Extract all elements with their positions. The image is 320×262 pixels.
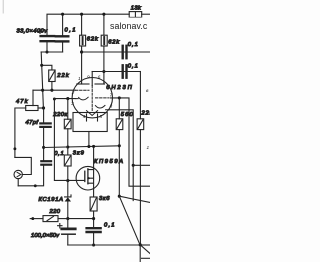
wire: 62k1 top to rail xyxy=(81,14,83,35)
tube cathode 1 xyxy=(76,97,88,100)
wire: 220k top lead xyxy=(67,99,69,120)
node: ground wire right end xyxy=(118,144,121,147)
svg-text:2: 2 xyxy=(71,90,75,95)
resistor R 47k (horizontal) xyxy=(26,106,38,111)
capacitor C1 33.0uF 400V (electrolytic, plus sign) xyxy=(41,36,55,41)
scan edge artifact top-left xyxy=(2,0,4,13)
transistor channel bar xyxy=(87,169,89,184)
svg-text:220к: 220к xyxy=(52,112,67,118)
node: anode wire / 0,1-wire junction xyxy=(80,50,83,53)
tube grid 1 dashed xyxy=(76,89,90,91)
svg-text:КП959А: КП959А xyxy=(94,159,123,165)
node: zener bottom junction xyxy=(66,217,69,220)
wire: cathode1 to gate column xyxy=(54,98,75,100)
wire: bottom short line xyxy=(142,257,151,259)
node: R560 top xyxy=(118,96,121,99)
wire: 100.0 to bus xyxy=(67,234,69,245)
svg-text:22к: 22к xyxy=(141,111,151,117)
resistor R 220k xyxy=(64,119,71,129)
node: rail/C2 junction xyxy=(61,13,64,16)
wire: output stub right (pin8) xyxy=(133,164,150,166)
watermark salonav.c xyxy=(106,18,150,33)
tube pin9 lead xyxy=(91,72,93,86)
svg-text:6: 6 xyxy=(98,75,101,80)
resistor R 62k #1 xyxy=(80,35,86,46)
resistor R 3k6 xyxy=(90,197,97,211)
node: riser crossing grid wire xyxy=(41,89,44,92)
wire: triangle hypotenuse xyxy=(119,196,140,245)
svg-text:100,0×50v: 100,0×50v xyxy=(31,233,60,239)
resistor R 220 (horizontal) xyxy=(43,216,58,222)
svg-text:1: 1 xyxy=(78,76,81,81)
resistor R 22k output xyxy=(137,119,144,130)
wire: R560 leads xyxy=(118,98,120,119)
svg-text:47k: 47k xyxy=(16,99,29,105)
svg-text:47pf: 47pf xyxy=(26,120,40,126)
svg-text:0,1: 0,1 xyxy=(128,42,138,48)
svg-text:62k: 62k xyxy=(108,40,120,46)
node: input column dot xyxy=(13,147,16,150)
transistor source lead xyxy=(88,170,94,197)
resistor R 560 xyxy=(116,119,123,130)
wire: bus to right edge xyxy=(140,244,150,246)
node: stub blob xyxy=(34,184,37,187)
svg-text:7: 7 xyxy=(110,93,113,98)
wire: 62k2 bottom to anode2 xyxy=(103,46,105,84)
wire: R22 bottom long vertical to star xyxy=(139,130,141,245)
resistor R 22k xyxy=(49,70,55,82)
node: triangle apex xyxy=(118,195,121,198)
node: 22k tap xyxy=(40,64,43,67)
node: C1 bottom junction xyxy=(45,50,48,53)
node: 3k9 on gate wire xyxy=(66,179,69,182)
node: heater ground xyxy=(87,145,90,148)
svg-text:0,1: 0,1 xyxy=(54,151,64,157)
wire: 220 right lead xyxy=(58,218,68,220)
tube divider dashed xyxy=(91,86,93,111)
wire: rail right of 13k to edge xyxy=(142,13,150,15)
pin labels xyxy=(71,74,150,150)
svg-text:8: 8 xyxy=(110,104,113,109)
node: 220k tap on cathode wire xyxy=(66,97,69,100)
svg-text:3к6: 3к6 xyxy=(99,196,110,202)
svg-text:13k: 13k xyxy=(131,6,142,12)
svg-text:560: 560 xyxy=(121,112,134,118)
wire: cap top to node xyxy=(67,219,69,229)
wire: ground bus bottom xyxy=(68,244,140,246)
resistor 13k (horizontal, top right) xyxy=(129,12,142,18)
node: drain on ground wire xyxy=(92,145,95,148)
svg-text:4: 4 xyxy=(83,114,86,119)
wire: ground bus horizontal (tilted) xyxy=(44,146,120,148)
wire: tap to 22k top xyxy=(42,65,52,70)
node: star point xyxy=(139,243,142,246)
wire: 218 wire to 3k6 column xyxy=(68,218,94,220)
transistor gate bar xyxy=(84,171,86,181)
wire: 47pf to ground wire xyxy=(43,127,45,161)
wire: 220k bottom to ground wire xyxy=(67,129,69,147)
wire: 3k9 bottom to gate wire xyxy=(67,166,69,180)
wire: down to 3k9 xyxy=(67,147,69,155)
wire: coupling lower to R22 column xyxy=(139,72,141,119)
wire: 3k6 bottom xyxy=(93,211,95,228)
wire: 62k2 top to rail xyxy=(103,14,105,35)
node: substrate tie xyxy=(88,177,90,179)
wire: 47k right lead to chain xyxy=(38,107,44,109)
node: chain on ground wire xyxy=(42,146,45,149)
wire: star down to bottom edge xyxy=(139,245,141,262)
wire: heater box bottom to ground wire xyxy=(88,132,90,147)
tube heater V xyxy=(87,111,98,116)
tube anode 1 xyxy=(77,83,89,85)
wire: gate column down xyxy=(54,99,84,181)
node: riser meets 47k lead xyxy=(42,106,45,109)
tube V1 6N23P envelope xyxy=(72,78,112,118)
wire: 0,1 output to bus xyxy=(93,232,95,245)
svg-text:0,1: 0,1 xyxy=(104,222,115,228)
svg-text:3: 3 xyxy=(71,101,74,106)
capacitor 0,1 output xyxy=(87,228,101,232)
tube anode 2 xyxy=(95,83,105,85)
wire: 220 left lead xyxy=(30,218,43,220)
wire: connector right to 47k column xyxy=(15,157,31,174)
svg-text:КС191А: КС191А xyxy=(39,197,64,203)
wire: 0,1 output wire (upper) xyxy=(82,51,150,53)
capacitor 100,0x50v electrolytic xyxy=(62,227,75,230)
capacitor 0,1 coupling upper xyxy=(123,46,127,58)
wire: grid2 (pin7) wire xyxy=(111,98,151,186)
wire: cap bottom to connector stub xyxy=(18,165,43,186)
node: anode2 / 0,1-wire2 junction xyxy=(102,70,105,73)
connector input jack xyxy=(14,170,22,178)
wire: C2 vertical through rail xyxy=(62,14,64,36)
wire: chain down to 47pf xyxy=(43,108,45,123)
svg-text:33,0×400v: 33,0×400v xyxy=(17,29,49,35)
node: 22k bottom on grid wire xyxy=(50,89,53,92)
wire: 62k1 bottom to anode1 xyxy=(81,46,83,84)
tube cathode 2 xyxy=(95,105,108,109)
wire: C1 bottom to bottom node xyxy=(41,41,47,52)
wire: 0,1 output wire (lower) from pin9 xyxy=(92,71,140,73)
wire: triangle top edge xyxy=(119,196,150,202)
node: 218 wire end xyxy=(92,217,95,220)
heater box xyxy=(73,113,107,132)
svg-text:1: 1 xyxy=(147,145,150,150)
svg-text:62k: 62k xyxy=(87,37,99,43)
wire: caps bottom horizontal xyxy=(41,51,62,53)
svg-text:220: 220 xyxy=(49,209,61,215)
wire: 22k bottom to grid wire xyxy=(51,82,53,91)
svg-text:5: 5 xyxy=(100,114,103,119)
wire: cathode2 (pin8) wire xyxy=(109,110,134,201)
wire: gate node down to zener xyxy=(67,180,69,197)
wire: B+ top rail xyxy=(47,14,129,35)
resistor R 3k9 xyxy=(64,155,71,166)
svg-text:0,1: 0,1 xyxy=(128,63,138,69)
node: pin8 output tap xyxy=(132,164,135,167)
node: 220k/3k9 on ground wire xyxy=(66,145,69,148)
capacitor 0,1 coupling lower xyxy=(123,65,127,77)
wire: left riser from caps node down xyxy=(41,52,43,108)
wire: heater pins to box xyxy=(86,114,88,121)
wire: 47k left lead to input column xyxy=(15,108,26,157)
capacitor C2 0,1 (top, right of C1) xyxy=(56,36,69,41)
transistor Q1 KP959A envelope xyxy=(76,166,100,190)
resistor R 62k #2 xyxy=(101,35,107,46)
svg-text:22k: 22k xyxy=(56,73,70,79)
svg-text:3к9: 3к9 xyxy=(73,150,85,156)
capacitor 0,1 (input line) xyxy=(41,161,51,165)
wire: grid wire corner down to 47k xyxy=(32,90,34,105)
capacitor 47pf xyxy=(40,123,50,127)
wire: star diagonal to corner xyxy=(140,245,150,254)
wire: grid1 wire (tube pin 2) xyxy=(33,89,75,91)
tube grid 2 dashed xyxy=(96,97,110,99)
node: output cap on bus xyxy=(92,243,95,246)
zener KS191A xyxy=(65,197,71,201)
node: corner cathode wire xyxy=(53,98,56,101)
svg-text:salonav.c: salonav.c xyxy=(110,21,148,31)
transistor drain lead xyxy=(88,146,94,169)
svg-text:9: 9 xyxy=(87,74,90,79)
svg-text:0,1: 0,1 xyxy=(65,28,76,34)
